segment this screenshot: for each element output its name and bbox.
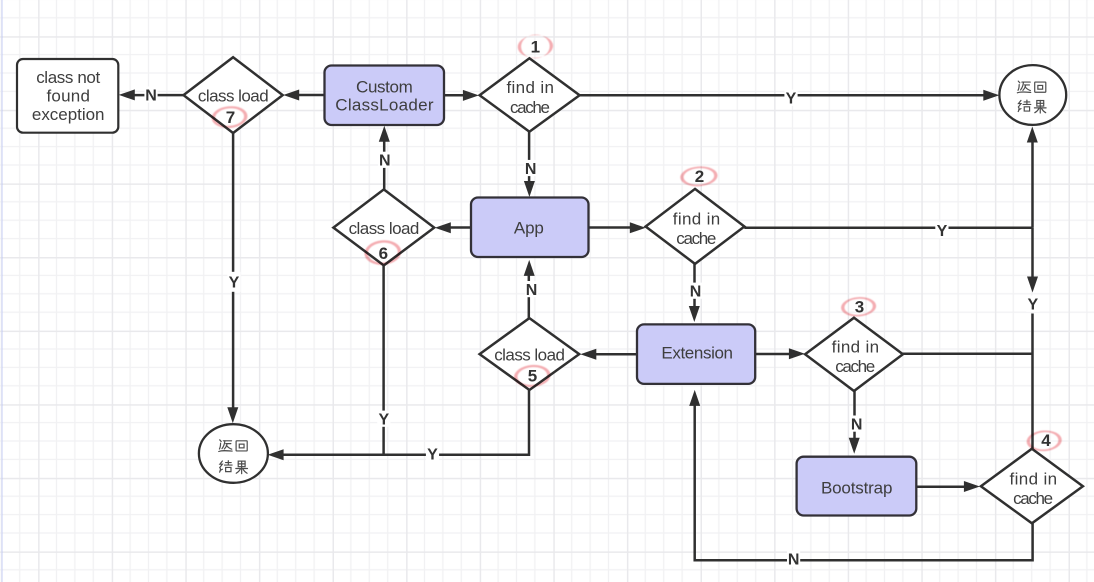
wire CustomClassLoader to findincache1 (444, 94, 466, 97)
svg-text:cache: cache (835, 357, 875, 376)
arrow into findincache4 left vertex (964, 481, 980, 492)
svg-text:N: N (526, 282, 538, 299)
wire CustomClassLoader to classload7 (294, 94, 444, 97)
svg-text:class load: class load (494, 345, 565, 364)
node: bottom result circle (199, 424, 268, 483)
svg-text:ClassLoader: ClassLoader (335, 96, 434, 115)
svg-text:exception: exception (32, 105, 105, 124)
svg-text:N: N (690, 284, 702, 301)
wire Bootstrap to findincache4 (916, 486, 967, 489)
node: diamond find in cache 4 (981, 449, 1083, 524)
arrow into top circle bottom (1027, 127, 1038, 143)
badge ring 4 (1026, 429, 1063, 452)
badge rings (211, 34, 1063, 453)
wire findincache3 right to riser (Y) (903, 353, 1033, 356)
label N below CustomCL (378, 152, 391, 170)
svg-text:N: N (788, 552, 800, 569)
arrow into App bottom (524, 260, 535, 276)
arrow into App top (524, 181, 535, 197)
svg-text:Y: Y (786, 91, 797, 108)
arrow into Bootstrap top (849, 438, 860, 454)
svg-text:6: 6 (379, 244, 388, 263)
svg-text:2: 2 (695, 167, 704, 186)
svg-text:Bootstrap: Bootstrap (821, 478, 893, 497)
arrow into classload6 right vertex (435, 222, 451, 233)
svg-text:class load: class load (349, 219, 420, 238)
svg-text:Y: Y (427, 447, 438, 464)
svg-text:7: 7 (226, 108, 235, 127)
label N exception (144, 86, 157, 104)
svg-text:Y: Y (1027, 297, 1038, 314)
wire findincache1 to top result circle (Y) (580, 94, 987, 97)
node: diamond class load 5 (480, 318, 580, 390)
svg-text:find in: find in (832, 337, 880, 356)
svg-text:cache: cache (676, 229, 716, 248)
chinese label top circle 返回结果 (1017, 81, 1046, 113)
canvas edge blue line (1, 0, 3, 582)
node: Extension rect (637, 324, 755, 384)
svg-text:cache: cache (1013, 489, 1053, 508)
label Y on riser (1026, 296, 1039, 314)
wire riser below Y label to diamond4 (1031, 314, 1034, 449)
label Y below classload7 (227, 272, 240, 292)
wire findincache1 down to App (N) (528, 132, 531, 185)
wire findincache4 bottom loop to Extension (N) (695, 403, 1033, 560)
chinese label bottom circle 返回结果 (219, 440, 248, 474)
label N below findincache2 (689, 283, 702, 301)
svg-text:App: App (514, 219, 544, 238)
arrow into top circle left (983, 90, 999, 101)
Y/N labels (white halo) (144, 86, 1039, 568)
svg-text:Y: Y (937, 223, 948, 240)
badge ring 7 (211, 105, 249, 130)
arrow into findincache1 left vertex (463, 90, 479, 101)
badge ring 3 (840, 296, 876, 318)
arrow into classload7 right vertex (283, 90, 299, 101)
wire App to findincache2 (589, 226, 634, 229)
arrow into classload5 right vertex (580, 349, 596, 360)
arrowheads (119, 89, 1038, 492)
badge ring 1 (517, 34, 554, 60)
wire findincache2 right to riser (Y) (744, 227, 1032, 230)
svg-text:3: 3 (855, 298, 864, 317)
wire riser up into top circle (1031, 140, 1034, 228)
svg-text:cache: cache (510, 98, 550, 117)
arrow into CustomClassLoader bottom (379, 126, 390, 142)
wire App to classload6 (448, 226, 472, 229)
svg-text:4: 4 (1041, 431, 1051, 450)
label Y bottom circle feed (426, 446, 439, 464)
wire classload7 down to result circle (Y) (232, 133, 235, 412)
svg-text:1: 1 (531, 37, 540, 56)
node: diamond find in cache 3 (805, 318, 903, 391)
svg-text:N: N (379, 153, 391, 170)
node: top result circle (999, 65, 1066, 125)
svg-text:Y: Y (229, 275, 240, 292)
arrow into bottom circle right (268, 449, 284, 460)
node: diamond find in cache 1 (480, 58, 580, 131)
node: App rect (471, 198, 589, 258)
node: Bootstrap rect (797, 457, 917, 516)
wire findincache2 down to Extension (N) (693, 264, 696, 310)
wire classload5 down-left to bottom circle (Y) (282, 390, 530, 455)
svg-text:class load: class load (198, 86, 269, 105)
arrow into Extension bottom (689, 390, 700, 406)
svg-text:found: found (46, 87, 90, 106)
node: Custom ClassLoader rect (325, 66, 445, 126)
node labels (32, 68, 1057, 508)
wire classload5 up to App (N) (528, 271, 531, 319)
wire findincache3 down to Bootstrap (N) (853, 391, 856, 441)
svg-text:N: N (525, 161, 537, 178)
node: diamond find in cache 2 (646, 189, 745, 264)
label N below findincache1 (524, 160, 537, 178)
badge numbers (226, 37, 1052, 450)
svg-text:N: N (851, 416, 863, 433)
wire Extension to classload5 (594, 353, 637, 356)
svg-text:N: N (145, 87, 157, 104)
badge ring 6 (363, 239, 402, 267)
wire classload6 up to CustomClassLoader (N) (383, 139, 386, 190)
label Y findincache2 wire (935, 222, 948, 240)
wire riser down segment with arrow (1031, 228, 1034, 280)
svg-text:Extension: Extension (661, 344, 733, 363)
arrow into exception box (119, 89, 135, 100)
badge ring 2 (680, 165, 719, 187)
svg-text:5: 5 (528, 367, 537, 386)
node: diamond class load 7 (184, 57, 283, 133)
label Y classload6 drop (377, 411, 390, 429)
svg-text:find in: find in (1010, 469, 1058, 488)
wire Extension to findincache3 (755, 353, 792, 356)
arrow down mid riser (1027, 277, 1038, 293)
label N bottom loop (787, 551, 800, 569)
arrow into findincache3 left vertex (789, 348, 805, 359)
svg-text:find in: find in (506, 78, 554, 97)
svg-text:class not: class not (36, 68, 100, 87)
wire classload6 down to Y junction (382, 265, 385, 454)
label N below findincache3 (850, 416, 863, 434)
label N above classload5 (525, 281, 538, 299)
arrow into bottom circle top (227, 407, 238, 423)
svg-text:Y: Y (378, 412, 389, 429)
svg-text:find in: find in (673, 209, 721, 228)
badge ring 5 (513, 363, 551, 388)
label Y findincache1 wire (784, 90, 797, 108)
wire classload7 to exception box (133, 94, 184, 97)
node: diamond class load 6 (333, 189, 434, 265)
node: class not found exception box (17, 59, 118, 133)
arrow into findincache2 left vertex (630, 222, 646, 233)
svg-text:Custom: Custom (356, 78, 413, 97)
arrow into Extension top (689, 306, 700, 322)
